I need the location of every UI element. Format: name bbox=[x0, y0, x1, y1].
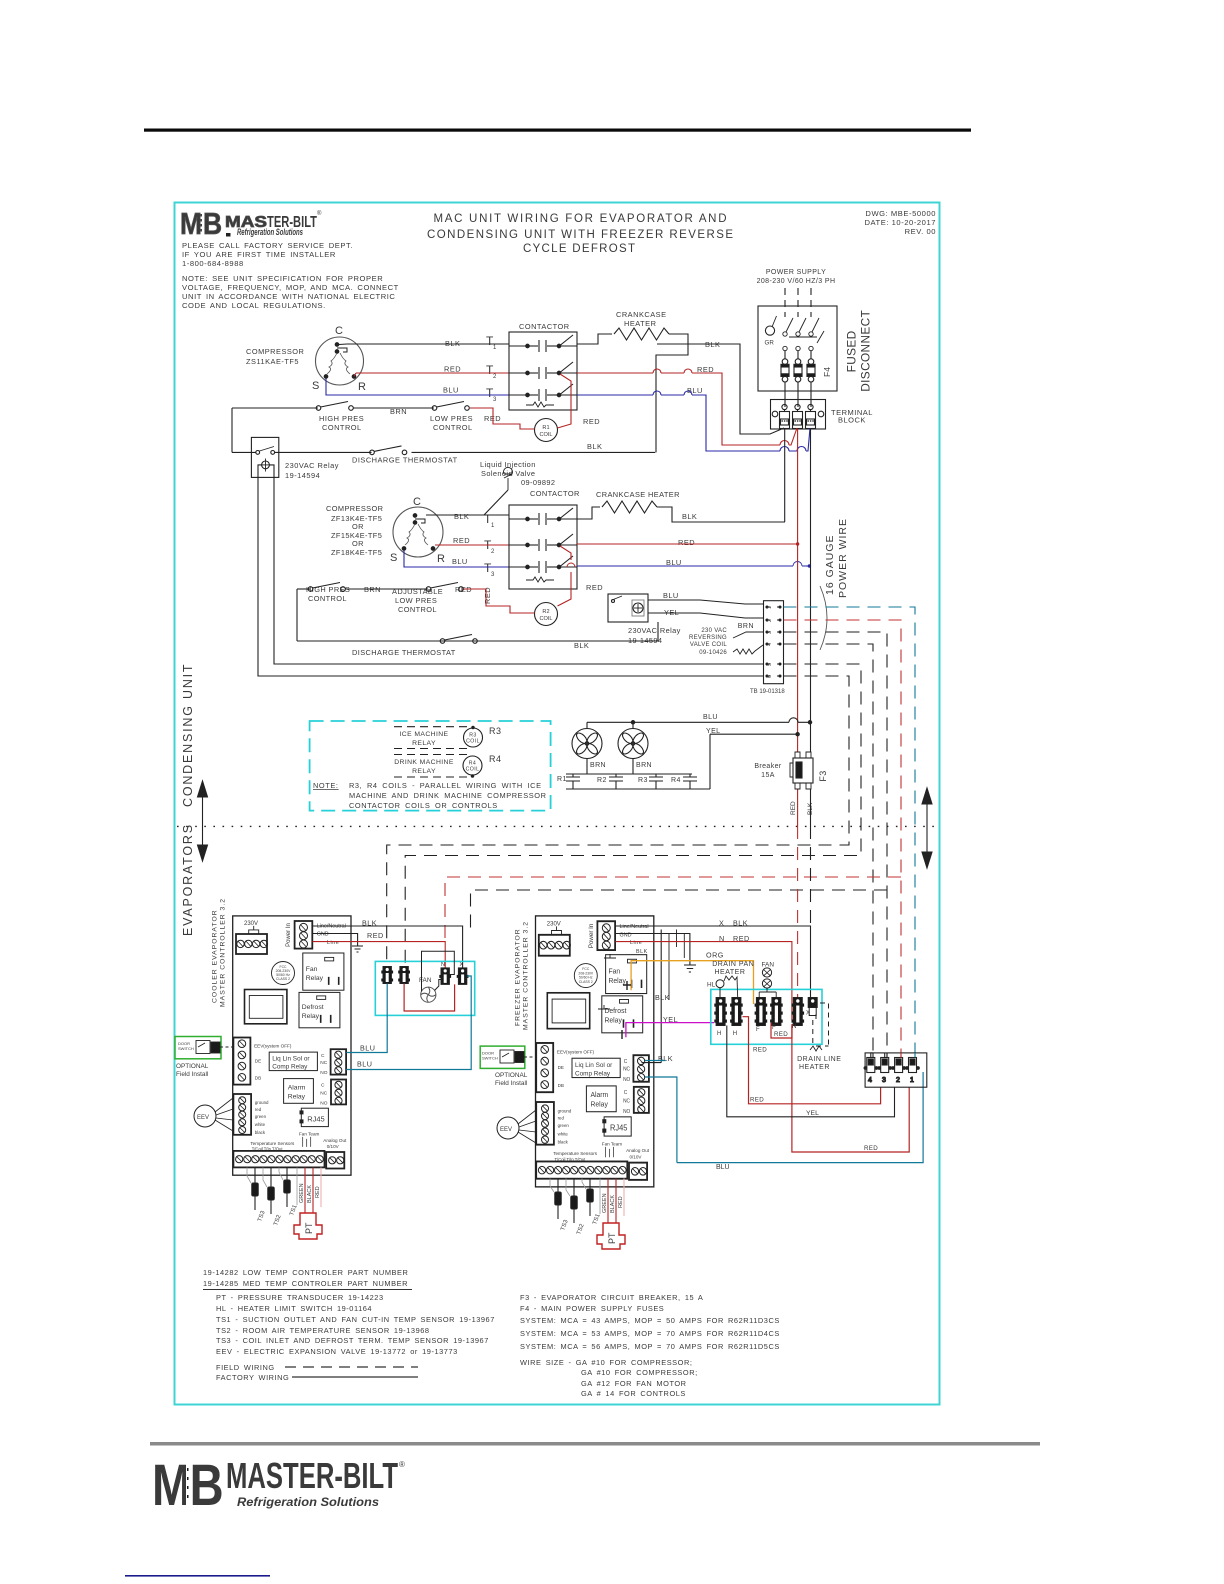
svg-text:208-230 V/60 HZ/3 PH: 208-230 V/60 HZ/3 PH bbox=[757, 278, 836, 285]
svg-text:BLK: BLK bbox=[658, 1054, 673, 1063]
svg-text:BLU: BLU bbox=[663, 591, 679, 600]
svg-text:CONDENSING UNIT: CONDENSING UNIT bbox=[181, 663, 195, 807]
svg-text:GA #10 FOR COMPRESSOR;: GA #10 FOR COMPRESSOR; bbox=[581, 1368, 698, 1377]
svg-text:RED: RED bbox=[864, 1145, 878, 1152]
svg-text:CONTACTOR COILS OR CONTROLS: CONTACTOR COILS OR CONTROLS bbox=[349, 801, 498, 810]
svg-text:DISCONNECT: DISCONNECT bbox=[859, 310, 873, 392]
svg-text:1: 1 bbox=[493, 345, 497, 351]
svg-text:2: 2 bbox=[491, 549, 495, 555]
svg-text:R3: R3 bbox=[638, 777, 648, 784]
svg-text:1: 1 bbox=[910, 1077, 914, 1084]
svg-text:BRN: BRN bbox=[590, 762, 606, 769]
svg-text:RED: RED bbox=[753, 1047, 767, 1054]
svg-text:EEV: EEV bbox=[197, 1115, 209, 1121]
svg-text:DATE: 10-20-2017: DATE: 10-20-2017 bbox=[864, 218, 936, 227]
svg-text:BLK: BLK bbox=[587, 442, 602, 451]
svg-text:19-14594: 19-14594 bbox=[285, 471, 320, 480]
svg-text:H: H bbox=[717, 1031, 721, 1037]
svg-text:3: 3 bbox=[882, 1077, 886, 1084]
svg-text:MAC UNIT WIRING FOR EVAPORATOR: MAC UNIT WIRING FOR EVAPORATOR AND bbox=[434, 213, 727, 225]
svg-text:COOLER EVAPORATOR: COOLER EVAPORATOR bbox=[212, 909, 219, 1003]
svg-text:ZS11KAE-TF5: ZS11KAE-TF5 bbox=[246, 357, 299, 366]
svg-text:OR: OR bbox=[352, 539, 364, 548]
svg-text:DRAIN PAN: DRAIN PAN bbox=[712, 961, 754, 968]
svg-text:CRANKCASE: CRANKCASE bbox=[616, 310, 667, 319]
svg-text:SYSTEM: MCA = 56 AMPS, MOP = 7: SYSTEM: MCA = 56 AMPS, MOP = 70 AMPS FOR… bbox=[520, 1342, 780, 1351]
svg-text:BRN: BRN bbox=[738, 623, 754, 630]
svg-text:CONTROL: CONTROL bbox=[308, 594, 347, 603]
svg-text:19-14282 LOW TEMP CONTROLER PA: 19-14282 LOW TEMP CONTROLER PART NUMBER bbox=[203, 1268, 408, 1277]
svg-text:S: S bbox=[312, 380, 319, 392]
svg-text:HEATER: HEATER bbox=[799, 1064, 830, 1071]
svg-text:COIL: COIL bbox=[466, 767, 480, 773]
svg-text:BLU: BLU bbox=[360, 1044, 375, 1053]
svg-text:HIGH PRES: HIGH PRES bbox=[319, 414, 364, 423]
svg-text:H: H bbox=[733, 1031, 737, 1037]
svg-text:RED: RED bbox=[774, 1031, 788, 1038]
svg-text:EEV - ELECTRIC EXPANSION VAL: EEV - ELECTRIC EXPANSION VALVE 19-13772 … bbox=[216, 1347, 458, 1356]
svg-text:2: 2 bbox=[896, 1077, 900, 1084]
svg-text:SYSTEM: MCA = 43 AMPS, MOP = 5: SYSTEM: MCA = 43 AMPS, MOP = 50 AMPS FOR… bbox=[520, 1316, 780, 1325]
svg-text:FAN: FAN bbox=[762, 962, 775, 969]
svg-text:HL: HL bbox=[707, 982, 716, 989]
svg-text:TS2 - ROOM AIR TEMPERATURE S: TS2 - ROOM AIR TEMPERATURE SENSOR 19-139… bbox=[216, 1326, 430, 1335]
svg-text:Field Install: Field Install bbox=[495, 1080, 527, 1087]
svg-text:PLEASE CALL FACTORY SERVICE DE: PLEASE CALL FACTORY SERVICE DEPT. bbox=[182, 241, 353, 250]
svg-text:BLK: BLK bbox=[454, 512, 469, 521]
svg-text:F: F bbox=[756, 1027, 760, 1033]
svg-text:F4: F4 bbox=[822, 367, 832, 377]
svg-text:3: 3 bbox=[493, 397, 497, 403]
svg-text:RELAY: RELAY bbox=[412, 740, 436, 747]
svg-text:R3: R3 bbox=[489, 726, 502, 736]
svg-text:4: 4 bbox=[767, 643, 773, 646]
svg-text:TS3: TS3 bbox=[257, 1210, 267, 1223]
svg-text:RED: RED bbox=[586, 583, 603, 592]
svg-text:1-800-684-8988: 1-800-684-8988 bbox=[182, 259, 244, 268]
svg-text:NOTE:: NOTE: bbox=[313, 781, 339, 790]
svg-text:WIRE SIZE - GA #10 FOR COMPRES: WIRE SIZE - GA #10 FOR COMPRESSOR; bbox=[520, 1358, 692, 1367]
svg-text:Refrigeration Solutions: Refrigeration Solutions bbox=[237, 1495, 379, 1509]
svg-text:OPTIONAL: OPTIONAL bbox=[495, 1072, 528, 1079]
svg-text:6: 6 bbox=[767, 675, 773, 678]
svg-text:CYCLE DEFROST: CYCLE DEFROST bbox=[523, 243, 635, 255]
svg-text:Line: Line bbox=[327, 940, 339, 946]
svg-text:RED: RED bbox=[367, 931, 384, 940]
svg-text:X: X bbox=[806, 1011, 810, 1017]
svg-text:BLU: BLU bbox=[716, 1164, 730, 1171]
svg-text:C: C bbox=[413, 496, 421, 508]
svg-text:DISCHARGE THERMOSTAT: DISCHARGE THERMOSTAT bbox=[352, 456, 458, 465]
svg-text:ZF18K4E-TF5: ZF18K4E-TF5 bbox=[331, 548, 382, 557]
svg-text:09-10426: 09-10426 bbox=[699, 650, 727, 656]
svg-text:BLOCK: BLOCK bbox=[838, 416, 866, 425]
svg-text:R4: R4 bbox=[489, 754, 502, 764]
svg-text:®: ® bbox=[317, 210, 322, 217]
svg-text:ICE MACHINE: ICE MACHINE bbox=[400, 731, 449, 738]
svg-text:3: 3 bbox=[491, 572, 495, 578]
svg-text:BLACK: BLACK bbox=[307, 1185, 313, 1203]
svg-text:ORG: ORG bbox=[706, 951, 724, 960]
svg-text:MASTER-BILT: MASTER-BILT bbox=[226, 1455, 398, 1496]
svg-text:CONDENSING UNIT WITH FREEZER R: CONDENSING UNIT WITH FREEZER REVERSE bbox=[427, 229, 733, 241]
svg-text:FAN: FAN bbox=[419, 977, 432, 984]
svg-text:Breaker: Breaker bbox=[754, 763, 782, 770]
svg-text:TS3: TS3 bbox=[560, 1219, 570, 1232]
svg-text:CRANKCASE HEATER: CRANKCASE HEATER bbox=[596, 490, 680, 499]
svg-text:GA #12 FOR FAN MOTOR: GA #12 FOR FAN MOTOR bbox=[581, 1379, 687, 1388]
svg-text:TS1: TS1 bbox=[592, 1213, 602, 1226]
svg-text:SWITCH: SWITCH bbox=[482, 1056, 498, 1061]
svg-text:VOLTAGE, FREQUENCY, MOP, AND M: VOLTAGE, FREQUENCY, MOP, AND MCA. CONNEC… bbox=[182, 283, 399, 292]
svg-text:®: ® bbox=[399, 1460, 405, 1469]
svg-text:2: 2 bbox=[767, 619, 773, 622]
svg-text:REV. 00: REV. 00 bbox=[905, 227, 936, 236]
svg-text:CONTACTOR: CONTACTOR bbox=[530, 489, 580, 498]
svg-text:GA # 14 FOR CONTROLS: GA # 14 FOR CONTROLS bbox=[581, 1389, 686, 1398]
svg-text:HEATER: HEATER bbox=[624, 319, 656, 328]
svg-text:BLK: BLK bbox=[655, 993, 670, 1002]
svg-text:IF YOU ARE FIRST TIME INSTALLE: IF YOU ARE FIRST TIME INSTALLER bbox=[182, 250, 336, 259]
svg-text:SYSTEM: MCA = 53 AMPS, MOP = 7: SYSTEM: MCA = 53 AMPS, MOP = 70 AMPS FOR… bbox=[520, 1329, 780, 1338]
svg-text:RED: RED bbox=[790, 801, 797, 815]
svg-text:BLK: BLK bbox=[574, 641, 589, 650]
svg-text:RELAY: RELAY bbox=[412, 768, 436, 775]
svg-text:2: 2 bbox=[493, 374, 497, 380]
svg-text:RED: RED bbox=[583, 417, 600, 426]
svg-text:RED: RED bbox=[444, 365, 461, 374]
svg-text:FREEZER EVAPORATOR: FREEZER EVAPORATOR bbox=[515, 928, 522, 1026]
svg-text:16 GAUGE: 16 GAUGE bbox=[824, 534, 836, 595]
svg-text:COIL: COIL bbox=[539, 432, 552, 438]
svg-text:19-14285 MED TEMP CONTROLER PA: 19-14285 MED TEMP CONTROLER PART NUMBER bbox=[203, 1279, 408, 1288]
svg-text:N: N bbox=[792, 1024, 796, 1030]
svg-text:230 VAC: 230 VAC bbox=[701, 628, 727, 634]
svg-text:BLU: BLU bbox=[357, 1060, 372, 1069]
svg-text:M: M bbox=[180, 207, 202, 241]
svg-text:LOW PRES: LOW PRES bbox=[395, 596, 437, 605]
svg-text:RED: RED bbox=[750, 1097, 764, 1104]
svg-text:F3 - EVAPORATOR CIRCUIT BREA: F3 - EVAPORATOR CIRCUIT BREAKER, 15 A bbox=[520, 1293, 703, 1302]
svg-text:09-09892: 09-09892 bbox=[521, 478, 555, 487]
svg-text:COMPRESSOR: COMPRESSOR bbox=[246, 347, 304, 356]
svg-text:Solenoid Valve: Solenoid Valve bbox=[481, 469, 535, 478]
svg-text:POWER WIRE: POWER WIRE bbox=[837, 518, 849, 598]
svg-text:BLU: BLU bbox=[703, 714, 718, 721]
svg-text:LOW PRES: LOW PRES bbox=[430, 414, 473, 423]
svg-text:5: 5 bbox=[767, 663, 773, 666]
svg-text:CODE AND LOCAL REGULATIONS.: CODE AND LOCAL REGULATIONS. bbox=[182, 301, 326, 310]
svg-text:FIELD WIRING: FIELD WIRING bbox=[216, 1363, 275, 1372]
svg-text:DRINK MACHINE: DRINK MACHINE bbox=[394, 759, 454, 766]
svg-text:1: 1 bbox=[767, 606, 773, 609]
svg-text:GREEN: GREEN bbox=[299, 1183, 305, 1203]
svg-text:OR: OR bbox=[352, 522, 364, 531]
svg-text:GREEN: GREEN bbox=[602, 1193, 608, 1213]
svg-text:DRAIN LINE: DRAIN LINE bbox=[797, 1056, 841, 1063]
svg-text:BRN: BRN bbox=[636, 762, 652, 769]
svg-text:R1: R1 bbox=[542, 425, 549, 431]
svg-text:3: 3 bbox=[767, 631, 773, 634]
svg-text:POWER SUPPLY: POWER SUPPLY bbox=[766, 269, 826, 276]
svg-text:PT - PRESSURE TRANSDUCER 19-: PT - PRESSURE TRANSDUCER 19-14223 bbox=[216, 1293, 384, 1302]
svg-text:CONTACTOR: CONTACTOR bbox=[519, 322, 570, 331]
svg-text:EVAPORATORS: EVAPORATORS bbox=[181, 823, 195, 936]
svg-text:TS1 - SUCTION OUTLET AND FAN: TS1 - SUCTION OUTLET AND FAN CUT-IN TEMP… bbox=[216, 1315, 495, 1324]
svg-text:C: C bbox=[335, 325, 343, 337]
svg-text:1: 1 bbox=[491, 523, 495, 529]
svg-text:Field Install: Field Install bbox=[176, 1071, 208, 1078]
svg-text:DISCHARGE THERMOSTAT: DISCHARGE THERMOSTAT bbox=[352, 648, 456, 657]
svg-text:S: S bbox=[390, 552, 397, 564]
svg-text:TS1: TS1 bbox=[289, 1204, 299, 1217]
svg-text:COIL: COIL bbox=[539, 616, 552, 622]
svg-text:4: 4 bbox=[868, 1077, 872, 1084]
svg-text:SWITCH: SWITCH bbox=[178, 1046, 194, 1051]
svg-text:TS3 - COIL INLET AND DEFROST: TS3 - COIL INLET AND DEFROST TERM. TEMP … bbox=[216, 1336, 489, 1345]
svg-text:RED: RED bbox=[678, 538, 695, 547]
svg-text:R4: R4 bbox=[671, 777, 681, 784]
svg-text:CONTROL: CONTROL bbox=[398, 605, 437, 614]
svg-text:BLACK: BLACK bbox=[610, 1195, 616, 1213]
svg-text:GR: GR bbox=[765, 340, 775, 347]
svg-text:RED: RED bbox=[315, 1186, 321, 1198]
svg-text:ADJUSTABLE: ADJUSTABLE bbox=[392, 587, 443, 596]
svg-text:VALVE COIL: VALVE COIL bbox=[690, 642, 727, 648]
svg-text:F3: F3 bbox=[818, 770, 828, 781]
svg-text:RED: RED bbox=[453, 536, 470, 545]
svg-text:UNIT IN ACCORDANCE WITH NATION: UNIT IN ACCORDANCE WITH NATIONAL ELECTRI… bbox=[182, 292, 395, 301]
svg-text:MASTER CONTROLLER 3.2: MASTER CONTROLLER 3.2 bbox=[220, 898, 227, 1007]
svg-text:Line: Line bbox=[630, 940, 642, 946]
svg-text:N: N bbox=[441, 962, 445, 968]
svg-text:MACHINE AND DRINK MACHINE COMP: MACHINE AND DRINK MACHINE COMPRESSOR bbox=[349, 791, 547, 800]
svg-text:DWG: MBE-50000: DWG: MBE-50000 bbox=[865, 209, 936, 218]
svg-text:R3, R4 COILS - PARALLEL WIRING: R3, R4 COILS - PARALLEL WIRING WITH ICE bbox=[349, 781, 542, 790]
svg-text:BLU: BLU bbox=[687, 386, 703, 395]
svg-text:CONTROL: CONTROL bbox=[322, 423, 362, 432]
svg-text:NOTE: SEE UNIT SPECIFICATION F: NOTE: SEE UNIT SPECIFICATION FOR PROPER bbox=[182, 274, 383, 283]
svg-text:TS2: TS2 bbox=[273, 1214, 283, 1227]
svg-text:Refrigeration Solutions: Refrigeration Solutions bbox=[237, 227, 303, 238]
svg-text:R: R bbox=[437, 553, 445, 565]
svg-text:HL - HEATER LIMIT SWITCH 19-: HL - HEATER LIMIT SWITCH 19-01164 bbox=[216, 1304, 372, 1313]
svg-text:FUSED: FUSED bbox=[845, 330, 859, 372]
svg-text:B: B bbox=[203, 207, 222, 241]
svg-text:X: X bbox=[460, 962, 464, 968]
svg-text:COMPRESSOR: COMPRESSOR bbox=[326, 504, 383, 513]
svg-text:F4 - MAIN POWER SUPPLY FUSES: F4 - MAIN POWER SUPPLY FUSES bbox=[520, 1304, 664, 1313]
svg-text:YEL: YEL bbox=[806, 1110, 819, 1117]
svg-text:230VAC Relay: 230VAC Relay bbox=[285, 461, 339, 470]
svg-text:TS2: TS2 bbox=[576, 1223, 586, 1236]
svg-text:OPTIONAL: OPTIONAL bbox=[176, 1063, 209, 1070]
svg-text:TB 19-01318: TB 19-01318 bbox=[750, 689, 785, 695]
svg-text:15A: 15A bbox=[761, 772, 775, 779]
svg-text:FACTORY WIRING: FACTORY WIRING bbox=[216, 1373, 289, 1382]
svg-text:R1: R1 bbox=[557, 776, 567, 783]
svg-text:R2: R2 bbox=[542, 609, 549, 615]
svg-text:R: R bbox=[358, 381, 366, 393]
svg-text:EEV: EEV bbox=[500, 1127, 512, 1133]
svg-text:MASTER CONTROLLER 3.2: MASTER CONTROLLER 3.2 bbox=[523, 921, 530, 1030]
svg-text:BLU: BLU bbox=[443, 386, 459, 395]
svg-text:RED: RED bbox=[618, 1196, 624, 1208]
svg-text:R2: R2 bbox=[597, 777, 607, 784]
svg-text:BLU: BLU bbox=[452, 557, 468, 566]
svg-text:COIL: COIL bbox=[466, 739, 480, 745]
svg-text:REVERSING: REVERSING bbox=[689, 635, 727, 641]
svg-text:CONTROL: CONTROL bbox=[433, 423, 473, 432]
svg-text:BLK: BLK bbox=[682, 512, 697, 521]
svg-text:230VAC Relay: 230VAC Relay bbox=[628, 626, 681, 635]
svg-text:BLK: BLK bbox=[636, 949, 648, 955]
svg-text:HEATER: HEATER bbox=[715, 969, 746, 976]
